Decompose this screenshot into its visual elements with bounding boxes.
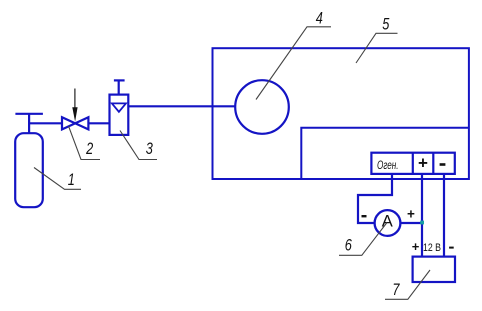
valve 2 (bowtie) bbox=[62, 117, 88, 129]
wire: valve 2 to rotameter 3 bbox=[88, 122, 109, 124]
rotameter 3 (body) bbox=[110, 95, 129, 135]
rotameter 3 top stem bbox=[118, 80, 120, 94]
svg-text:1: 1 bbox=[68, 170, 75, 189]
leader line for label 1 bbox=[34, 168, 81, 190]
terminal strip box bbox=[371, 153, 454, 174]
svg-text:+: + bbox=[407, 207, 415, 222]
rotameter 3 top T-bar bbox=[114, 79, 125, 81]
svg-text:Оген.: Оген. bbox=[377, 158, 399, 172]
svg-text:6: 6 bbox=[345, 236, 353, 255]
wire: - terminal down to battery bbox=[443, 174, 445, 257]
leader line for label 2 bbox=[69, 126, 101, 160]
leader line for label 7 bbox=[385, 270, 430, 299]
terminal label - bbox=[440, 163, 446, 166]
svg-text:+: + bbox=[412, 239, 420, 254]
valve actuator arrow stem bbox=[74, 89, 76, 111]
svg-text:7: 7 bbox=[392, 280, 400, 299]
gas cylinder 1 (body) bbox=[15, 133, 43, 207]
junction dot bbox=[420, 221, 424, 225]
inner compartment partition bbox=[301, 128, 469, 179]
enclosure 5 bbox=[213, 48, 469, 179]
leader line for label 4 bbox=[256, 27, 331, 100]
valve actuator arrowhead bbox=[72, 107, 77, 121]
leader line for label 5 bbox=[356, 33, 398, 63]
svg-text:5: 5 bbox=[382, 15, 390, 34]
battery polarity label - bbox=[449, 247, 454, 249]
battery 7 box bbox=[413, 257, 455, 282]
leader line for label 6 bbox=[339, 223, 387, 256]
blower circle 4 bbox=[235, 80, 289, 134]
wire: cylinder to valve 2 bbox=[29, 122, 62, 124]
wire: rotameter 3 to blower 4 bbox=[128, 105, 236, 107]
terminal divider 2 bbox=[432, 153, 434, 174]
rotameter 3 float triangle bbox=[112, 103, 126, 111]
svg-text:+: + bbox=[418, 153, 428, 172]
wire: + terminal down to battery through junction bbox=[421, 174, 423, 257]
svg-text:2: 2 bbox=[85, 139, 93, 158]
wire: ammeter plus to junction bbox=[400, 222, 422, 224]
terminal divider 1 bbox=[412, 153, 414, 174]
svg-text:4: 4 bbox=[316, 9, 323, 28]
cylinder valve stem bbox=[28, 114, 30, 134]
svg-text:3: 3 bbox=[146, 139, 154, 158]
svg-text:12 В: 12 В bbox=[423, 242, 441, 254]
cylinder valve handle T-bar bbox=[15, 113, 43, 115]
minus sign at ammeter bbox=[362, 215, 367, 217]
ammeter 6 circle bbox=[375, 210, 401, 236]
wire: Оген. terminal to ammeter minus bbox=[358, 174, 392, 223]
leader line for label 3 bbox=[120, 131, 157, 160]
